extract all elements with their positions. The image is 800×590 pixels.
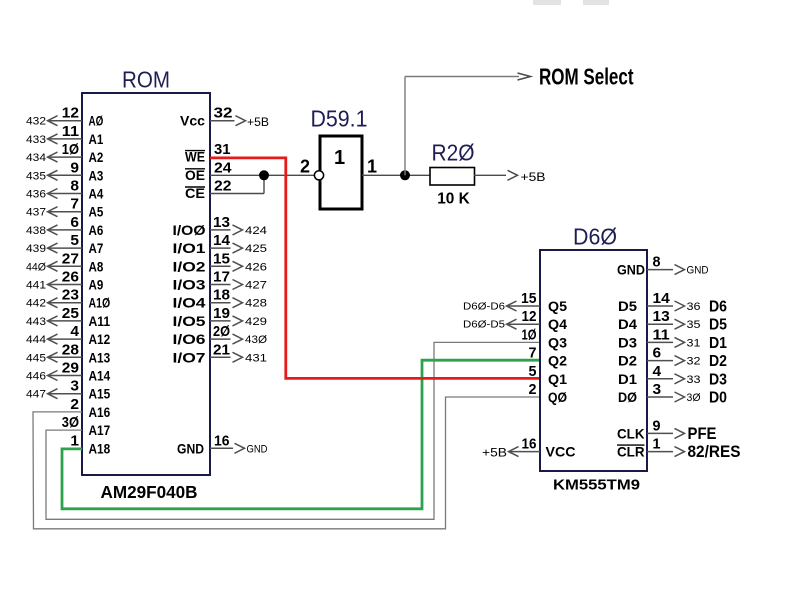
pin 22 CE (ROM) <box>185 178 232 202</box>
svg-text:435: 435 <box>26 170 46 182</box>
svg-text:CLK: CLK <box>617 425 645 441</box>
svg-text:3: 3 <box>70 378 79 395</box>
inverter U-D59.1 box <box>320 136 362 209</box>
svg-text:D6: D6 <box>709 299 727 316</box>
svg-text:A2: A2 <box>89 149 104 165</box>
svg-text:3Ø: 3Ø <box>687 392 701 404</box>
svg-text:D1: D1 <box>709 335 727 352</box>
svg-text:AØ: AØ <box>89 113 104 129</box>
svg-text:Q2: Q2 <box>548 353 567 369</box>
svg-text:36: 36 <box>687 301 701 313</box>
svg-text:A4: A4 <box>89 186 104 202</box>
pin 16 VCC (D60) from +5B <box>482 436 576 460</box>
pin 16 GND (ROM) <box>177 432 268 456</box>
svg-text:A3: A3 <box>89 167 104 183</box>
svg-text:A13: A13 <box>89 349 111 365</box>
pin 21 I/O7 (ROM) net 431 <box>173 341 268 365</box>
svg-text:R2Ø: R2Ø <box>432 140 475 166</box>
svg-text:A8: A8 <box>89 258 104 274</box>
svg-text:I/O6: I/O6 <box>173 331 206 347</box>
pin 15 I/O2 (ROM) net 426 <box>173 250 268 274</box>
svg-text:21: 21 <box>213 341 230 358</box>
pin 14 D5 (D60) net 36 D6 <box>618 290 727 316</box>
svg-text:428: 428 <box>245 298 267 310</box>
svg-text:7: 7 <box>529 345 537 362</box>
wire WE to Q1 (red net) <box>210 158 540 379</box>
pin 5 Q1 (D60) <box>529 363 568 387</box>
svg-text:434: 434 <box>26 152 46 164</box>
pin 5 A7 (ROM) <box>26 232 103 256</box>
pin 17 I/O3 (ROM) net 427 <box>173 269 268 293</box>
svg-text:2: 2 <box>529 381 537 398</box>
wire A17 to Q3 <box>46 342 540 519</box>
svg-text:15: 15 <box>521 290 537 307</box>
pin 10 A2 (ROM) <box>26 141 103 165</box>
svg-text:VCC: VCC <box>546 444 576 460</box>
pin 15 Q5 (D60) net D60-D6 <box>463 290 567 314</box>
svg-text:9: 9 <box>70 159 79 176</box>
svg-text:3Ø: 3Ø <box>62 414 79 431</box>
svg-text:I/O5: I/O5 <box>173 313 206 329</box>
pin 7 A5 (ROM) <box>26 196 103 220</box>
svg-text:431: 431 <box>245 352 267 364</box>
pin 13 D4 (D60) net 35 D5 <box>618 308 727 334</box>
pin 31 WE (ROM) <box>185 141 231 165</box>
svg-text:I/O2: I/O2 <box>173 258 206 274</box>
pin 27 A8 (ROM) <box>26 250 103 274</box>
svg-text:425: 425 <box>245 243 267 255</box>
svg-text:GND: GND <box>177 440 204 456</box>
svg-text:432: 432 <box>26 116 46 128</box>
svg-text:1: 1 <box>367 157 377 177</box>
svg-text:8: 8 <box>70 178 79 195</box>
svg-text:31: 31 <box>687 337 701 349</box>
pin 9 A3 (ROM) <box>26 159 103 183</box>
svg-text:D3: D3 <box>618 334 637 350</box>
svg-text:PFE: PFE <box>688 424 717 443</box>
svg-text:I/OØ: I/OØ <box>173 222 206 238</box>
inverter input bubble <box>314 171 323 180</box>
svg-text:22: 22 <box>214 178 232 195</box>
svg-text:427: 427 <box>245 280 267 292</box>
svg-text:18: 18 <box>213 287 230 304</box>
svg-text:27: 27 <box>62 250 79 267</box>
pin 1 CLR (D60) to 82/RES <box>617 436 741 462</box>
svg-text:25: 25 <box>62 305 79 322</box>
svg-text:438: 438 <box>26 225 46 237</box>
junction on OE/CE net <box>259 170 269 180</box>
svg-text:446: 446 <box>26 371 46 383</box>
svg-text:A6: A6 <box>89 222 104 238</box>
svg-text:D2: D2 <box>618 353 637 369</box>
wire inverter output to R20 <box>362 174 430 176</box>
svg-text:ROM Select: ROM Select <box>539 64 634 90</box>
svg-text:ROM: ROM <box>122 67 170 93</box>
svg-text:6: 6 <box>653 345 662 362</box>
svg-text:4: 4 <box>70 323 79 340</box>
pin 4 A12 (ROM) <box>26 323 110 347</box>
svg-text:A12: A12 <box>89 331 111 347</box>
chip D60 box <box>540 250 647 471</box>
svg-text:DØ: DØ <box>618 389 637 405</box>
svg-text:2: 2 <box>70 396 79 413</box>
svg-text:1: 1 <box>653 436 661 453</box>
svg-text:12: 12 <box>522 308 537 325</box>
svg-text:15: 15 <box>213 250 230 267</box>
svg-text:447: 447 <box>26 389 46 401</box>
svg-text:19: 19 <box>213 305 230 322</box>
svg-text:Q3: Q3 <box>548 334 567 350</box>
pin 2 Q0 (D60) <box>529 381 568 405</box>
svg-text:10 K: 10 K <box>437 191 470 208</box>
svg-text:D3: D3 <box>709 371 727 388</box>
svg-text:443: 443 <box>26 316 46 328</box>
svg-text:29: 29 <box>62 360 79 377</box>
svg-text:32: 32 <box>687 356 701 368</box>
svg-text:11: 11 <box>62 123 79 140</box>
svg-text:437: 437 <box>26 207 46 219</box>
svg-text:D6Ø: D6Ø <box>573 224 617 250</box>
svg-text:424: 424 <box>245 225 267 237</box>
pin 7 Q2 (D60) <box>529 345 568 369</box>
svg-text:+5B: +5B <box>247 117 269 129</box>
pin 23 A10 (ROM) <box>26 287 110 311</box>
svg-text:2Ø: 2Ø <box>213 323 230 340</box>
svg-text:33: 33 <box>687 374 701 386</box>
svg-text:2: 2 <box>300 157 310 177</box>
pin 25 A11 (ROM) <box>26 305 110 329</box>
svg-text:3: 3 <box>653 381 662 398</box>
pin 9 CLK (D60) to PFE <box>617 417 717 443</box>
pin 26 A9 (ROM) <box>26 269 103 293</box>
svg-text:A16: A16 <box>89 404 111 420</box>
svg-text:1: 1 <box>70 432 79 449</box>
pin 32 Vcc (ROM) to +5B <box>180 105 269 130</box>
pin 6 D2 (D60) net 32 D2 <box>618 345 727 371</box>
svg-text:Q4: Q4 <box>548 316 567 332</box>
svg-text:43Ø: 43Ø <box>245 334 267 346</box>
svg-text:426: 426 <box>245 261 267 273</box>
svg-text:35: 35 <box>687 319 701 331</box>
pin 19 I/O5 (ROM) net 429 <box>173 305 268 329</box>
svg-text:429: 429 <box>245 316 267 328</box>
svg-text:I/O4: I/O4 <box>173 295 206 311</box>
svg-text:I/O3: I/O3 <box>173 277 206 293</box>
svg-text:13: 13 <box>653 308 670 325</box>
wire CE pin22 up to OE net <box>210 175 264 193</box>
svg-text:16: 16 <box>522 436 537 453</box>
pin 6 A6 (ROM) <box>26 214 103 238</box>
svg-text:A11: A11 <box>89 313 111 329</box>
svg-text:A1: A1 <box>89 131 104 147</box>
wire OE pin24 to inverter input <box>210 174 315 176</box>
svg-text:A5: A5 <box>89 204 104 220</box>
svg-text:A9: A9 <box>89 277 104 293</box>
svg-text:32: 32 <box>214 105 233 122</box>
svg-text:A7: A7 <box>89 240 104 256</box>
pin 12 Q4 (D60) net D60-D5 <box>463 308 567 332</box>
svg-text:4: 4 <box>653 363 662 380</box>
svg-text:D4: D4 <box>618 316 637 332</box>
svg-text:I/O1: I/O1 <box>173 240 206 256</box>
pin 14 I/O1 (ROM) net 425 <box>173 232 268 256</box>
svg-text:D59.1: D59.1 <box>311 106 368 132</box>
svg-text:439: 439 <box>26 243 46 255</box>
svg-text:436: 436 <box>26 189 46 201</box>
svg-text:GND: GND <box>687 265 709 277</box>
pin 11 A1 (ROM) <box>26 123 103 147</box>
svg-text:1Ø: 1Ø <box>522 326 537 343</box>
pin 18 I/O4 (ROM) net 428 <box>173 287 268 311</box>
svg-text:QØ: QØ <box>548 389 567 405</box>
pin 8 GND (D60) <box>617 254 709 278</box>
junction at inverter output node <box>400 170 410 180</box>
svg-text:14: 14 <box>213 232 231 249</box>
svg-text:28: 28 <box>62 341 79 358</box>
pin 20 I/O6 (ROM) net 430 <box>173 323 268 347</box>
pin 12 A0 (ROM) <box>26 105 103 129</box>
svg-text:44Ø: 44Ø <box>26 261 46 273</box>
pin 1 A18 (ROM) <box>70 432 79 449</box>
pin 8 A4 (ROM) <box>26 178 103 202</box>
resistor R20 <box>430 168 475 186</box>
svg-text:26: 26 <box>62 269 79 286</box>
svg-text:Vcc: Vcc <box>180 113 205 129</box>
pin 2 A16 (ROM) <box>70 396 110 420</box>
pin 13 I/O0 (ROM) net 424 <box>173 214 268 238</box>
wire A16 to Q0 <box>33 397 540 529</box>
pin 28 A13 (ROM) <box>26 341 110 365</box>
svg-text:Q5: Q5 <box>548 298 567 314</box>
svg-text:+5B: +5B <box>482 448 507 460</box>
svg-text:11: 11 <box>653 326 670 343</box>
pin 3 A15 (ROM) <box>26 378 110 402</box>
svg-text:GND: GND <box>617 262 645 278</box>
svg-text:GND: GND <box>247 443 268 455</box>
pin 30 A17 (ROM) <box>62 414 111 438</box>
pin 11 D3 (D60) net 31 D1 <box>618 326 727 352</box>
svg-text:A17: A17 <box>89 422 111 438</box>
svg-text:CLR: CLR <box>617 444 645 460</box>
svg-text:Q1: Q1 <box>548 371 567 387</box>
wire R20 to +5B <box>474 170 518 180</box>
svg-text:17: 17 <box>213 269 230 286</box>
svg-text:AM29F040B: AM29F040B <box>101 482 198 502</box>
svg-text:A18: A18 <box>89 440 111 456</box>
svg-text:5: 5 <box>70 232 79 249</box>
chip ROM box <box>82 93 210 475</box>
svg-text:I/O7: I/O7 <box>173 349 206 365</box>
svg-text:A14: A14 <box>89 368 111 384</box>
svg-text:5: 5 <box>529 363 537 380</box>
svg-text:14: 14 <box>653 290 671 307</box>
svg-text:12: 12 <box>62 105 79 122</box>
svg-text:442: 442 <box>26 298 46 310</box>
svg-text:D2: D2 <box>709 353 727 370</box>
svg-text:A1Ø: A1Ø <box>89 295 111 311</box>
svg-text:6: 6 <box>70 214 79 231</box>
pin 24 OE (ROM) <box>185 159 232 183</box>
svg-text:1: 1 <box>334 147 345 169</box>
svg-text:D6Ø-D5: D6Ø-D5 <box>463 320 505 331</box>
svg-text:KM555TM9: KM555TM9 <box>553 478 640 494</box>
wire A18 to Q2 (green net) <box>62 360 540 509</box>
pin 3 D0 (D60) net 30 D0 <box>618 381 727 407</box>
svg-text:24: 24 <box>214 159 232 176</box>
svg-text:444: 444 <box>26 334 46 346</box>
wire node up to ROM Select <box>405 77 519 176</box>
svg-text:1Ø: 1Ø <box>62 141 79 158</box>
svg-text:82/RES: 82/RES <box>688 442 741 461</box>
svg-text:D6Ø-D6: D6Ø-D6 <box>463 302 505 313</box>
svg-text:13: 13 <box>213 214 230 231</box>
arrow to ROM Select <box>518 73 531 80</box>
svg-text:23: 23 <box>62 287 79 304</box>
svg-text:31: 31 <box>214 141 231 158</box>
svg-text:D5: D5 <box>709 317 727 334</box>
svg-text:433: 433 <box>26 134 46 146</box>
svg-text:+5B: +5B <box>521 172 546 184</box>
svg-text:445: 445 <box>26 352 46 364</box>
svg-text:441: 441 <box>26 280 46 292</box>
pin 29 A14 (ROM) <box>26 360 110 384</box>
svg-text:D1: D1 <box>618 371 637 387</box>
pin 4 D1 (D60) net 33 D3 <box>618 363 727 389</box>
svg-text:A15: A15 <box>89 386 111 402</box>
svg-text:9: 9 <box>653 417 661 434</box>
pin 10 Q3 (D60) <box>522 326 568 350</box>
svg-text:7: 7 <box>70 196 79 213</box>
svg-text:8: 8 <box>653 254 661 271</box>
svg-text:D0: D0 <box>709 390 727 407</box>
svg-text:16: 16 <box>214 432 230 449</box>
svg-text:D5: D5 <box>618 298 637 314</box>
